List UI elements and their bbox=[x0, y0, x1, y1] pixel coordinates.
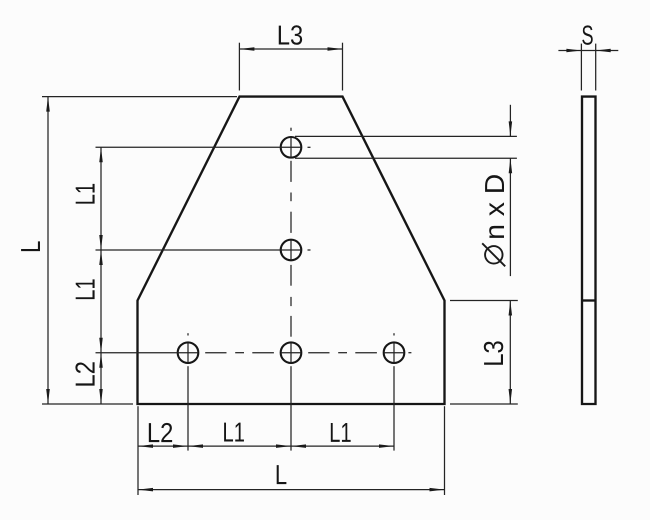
dimension S: arrows (outside pointing inward) bbox=[566, 49, 581, 53]
horizontal center line y=147.3 top hole + extension to left chain bbox=[96, 146, 311, 148]
bottom chain arrow at x=394 bbox=[379, 444, 394, 448]
left chain arrows at y=352.7 bbox=[99, 338, 103, 353]
dimension L3 top: extension lines bbox=[239, 43, 342, 91]
dimension L bottom: dimension line y=489.6 bbox=[138, 489, 445, 491]
left chain dimension line x=101 bbox=[100, 147, 102, 404]
label L2 bottom bbox=[149, 423, 172, 442]
left chain arrows at y=250 bbox=[99, 235, 103, 250]
hole H1 top (291,147.3) bbox=[281, 137, 302, 158]
horizontal center line y=250 middle hole + extension to left chain bbox=[96, 249, 311, 251]
hole diameter arrows (outside pointing inward) bbox=[509, 121, 513, 136]
left chain arrows at y=147.3 bbox=[99, 147, 103, 162]
hole H5 bottom-right (394,352.7) bbox=[384, 342, 405, 363]
vertical center line x=394 bbox=[393, 333, 395, 450]
label L left (rotated) bbox=[21, 241, 40, 251]
dimension L3 right: arrows bbox=[509, 301, 513, 316]
hole diameter leader lines (tangents of top hole) bbox=[295, 136, 517, 158]
hole H2 middle (291,250) bbox=[281, 240, 302, 261]
vertical center line x=291 (dash-dot) bbox=[290, 128, 292, 451]
label L1 bottom left bbox=[224, 423, 244, 442]
bottom chain arrows at x=188 bbox=[173, 444, 188, 448]
plate outline (front view) bbox=[138, 97, 445, 404]
bottom chain arrows at x=138 bbox=[138, 444, 153, 448]
label L1 bottom right bbox=[331, 423, 351, 442]
hole H3 bottom-left (188,352.7) bbox=[178, 342, 199, 363]
left chain arrow at y=404 bbox=[99, 389, 103, 404]
dimension L left: arrows bbox=[46, 97, 50, 112]
bottom chain dimension line y=446.1 bbox=[138, 445, 394, 447]
label L2 left (rotated) bbox=[75, 362, 94, 385]
dimension L3 right: extension lines bbox=[450, 301, 518, 405]
label n x D (rotated) bbox=[485, 175, 504, 238]
bottom chain: extension lines bbox=[138, 406, 445, 495]
dimension S: dimension line bbox=[558, 50, 618, 52]
vertical center line x=188 bbox=[187, 333, 189, 450]
horizontal center line y=352.7 bottom row (dash-dot) + extension bbox=[96, 352, 412, 354]
label L3 top bbox=[279, 25, 302, 44]
dimension L left: dimension line bbox=[47, 97, 49, 404]
dimension L left: extension lines bbox=[42, 97, 237, 404]
hole H4 bottom-center (291,352.7) bbox=[281, 342, 302, 363]
bottom chain arrows at x=291 bbox=[276, 444, 291, 448]
dimension L3 top: dimension line bbox=[239, 48, 342, 50]
diameter symbol of label (circle with slash, rotated frame) bbox=[482, 243, 505, 266]
hole diameter dimension line x=510.4 bbox=[509, 105, 511, 276]
label S bbox=[582, 25, 592, 44]
side view plate (right) bbox=[582, 97, 596, 404]
label L3 right (rotated) bbox=[484, 341, 503, 364]
label L1 upper (rotated) bbox=[76, 184, 95, 204]
label L bottom bbox=[277, 465, 287, 484]
dimension L bottom: arrows bbox=[138, 488, 153, 492]
dimension L3 right: dimension line bbox=[509, 301, 511, 405]
dimension S: extension lines bbox=[581, 44, 595, 91]
dimension L3 top: arrows bbox=[239, 47, 254, 51]
side view edge line at corner level bbox=[582, 299, 596, 301]
label L1 lower (rotated) bbox=[76, 279, 95, 299]
